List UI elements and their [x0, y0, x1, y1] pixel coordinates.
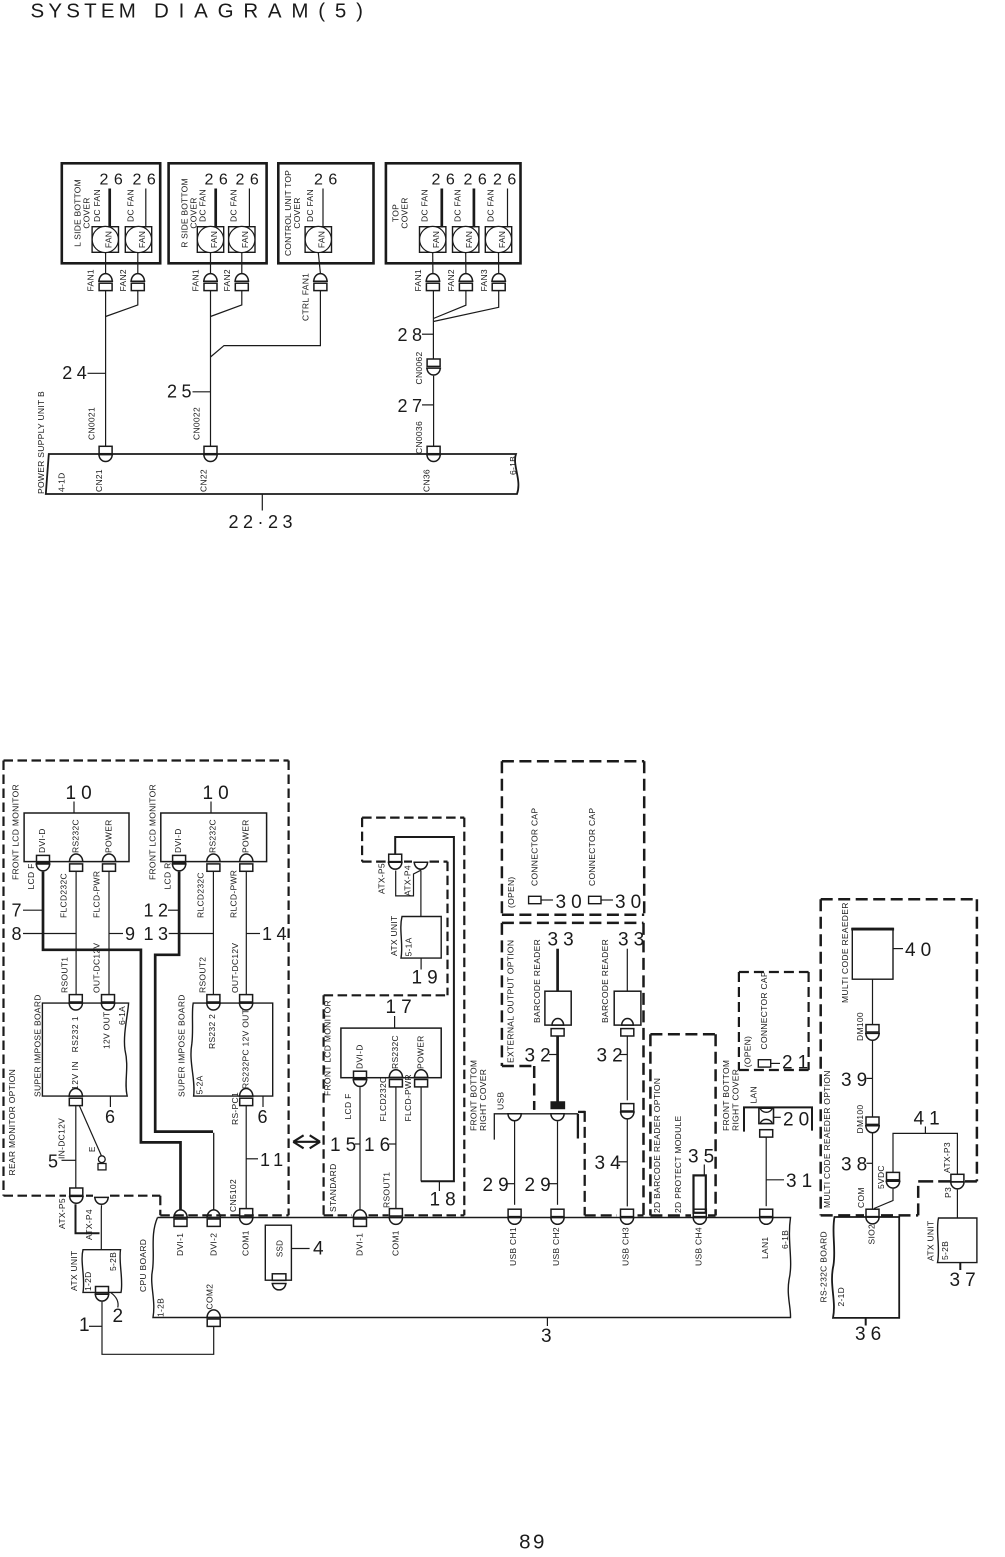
- svg-text:4-1D: 4-1D: [57, 472, 67, 492]
- svg-text:RS232 2: RS232 2: [207, 1014, 217, 1049]
- fan FAN1 (top cover): [420, 227, 446, 253]
- wire CN0062 to CN0036: [433, 376, 435, 447]
- connector FAN2 (R): [234, 274, 249, 282]
- svg-text:11: 11: [260, 1150, 288, 1170]
- svg-text:COM2: COM2: [204, 1284, 214, 1310]
- svg-text:CONNECTOR CAP: CONNECTOR CAP: [759, 971, 769, 1049]
- label 4: [291, 1248, 309, 1250]
- svg-text:CONNECTOR CAP: CONNECTOR CAP: [587, 808, 597, 886]
- svg-text:FRONT LCD MONITOR: FRONT LCD MONITOR: [148, 784, 158, 880]
- connector POWER (LCD R): [239, 854, 254, 862]
- label 37: [959, 1263, 961, 1270]
- svg-text:29: 29: [525, 1175, 556, 1196]
- svg-text:31: 31: [786, 1171, 817, 1192]
- svg-text:FAN2: FAN2: [222, 269, 232, 291]
- svg-text:DVI-1: DVI-1: [175, 1233, 185, 1256]
- connector RS232C (LCD R): [206, 854, 221, 862]
- wire RLCD-PWR to OUT-DC12V-2: [245, 871, 247, 994]
- svg-text:13: 13: [144, 924, 173, 944]
- svg-text:CN5102: CN5102: [228, 1179, 238, 1212]
- svg-text:26: 26: [236, 172, 265, 189]
- dashed box MULTI CODE REAEDER OPTION: [821, 898, 977, 901]
- connector below reader1: [551, 1029, 564, 1036]
- svg-text:CN36: CN36: [422, 469, 432, 492]
- wire DVI std to DVI-1: [359, 1087, 361, 1210]
- box FRONT LCD MONITOR (standard): [341, 1028, 441, 1078]
- svg-text:OUT-DC12V: OUT-DC12V: [92, 943, 102, 993]
- svg-text:26: 26: [133, 172, 162, 189]
- label 11: [246, 1158, 258, 1160]
- connector LAN1 on CPU board: [760, 1209, 773, 1216]
- double arrow option/standard: [293, 1135, 320, 1148]
- svg-text:DVI-D: DVI-D: [354, 1044, 364, 1069]
- connector cap 21: [758, 1060, 770, 1067]
- connector ATX-P5 (rear option): [70, 1188, 83, 1195]
- fan CTRL FAN (control unit top): [305, 227, 331, 253]
- svg-text:19: 19: [412, 968, 443, 989]
- connector USB port 2 on cover: [550, 1114, 565, 1121]
- label 6 (board1): [109, 1096, 111, 1107]
- svg-text:DIAGRAM(5): DIAGRAM(5): [154, 0, 373, 23]
- svg-text:RS232PC 12V OUT: RS232PC 12V OUT: [240, 1009, 250, 1089]
- svg-text:FRONT BOTTOM: FRONT BOTTOM: [468, 1060, 478, 1131]
- wire FAN2-L join: [106, 291, 138, 317]
- svg-text:38: 38: [841, 1155, 872, 1176]
- svg-text:RIGHT COVER: RIGHT COVER: [731, 1069, 741, 1131]
- svg-text:5-2B: 5-2B: [108, 1252, 118, 1271]
- svg-text:17: 17: [386, 997, 417, 1018]
- svg-text:27: 27: [398, 396, 427, 416]
- svg-text:32: 32: [597, 1046, 628, 1067]
- svg-text:RS-PC1: RS-PC1: [230, 1092, 240, 1125]
- svg-text:26: 26: [100, 172, 129, 189]
- svg-text:24: 24: [62, 363, 91, 383]
- wire barcode1 to USB CH2: [557, 1121, 559, 1204]
- wire FLCD232C to RSOUT1: [75, 871, 77, 994]
- connector CN0021/CN21 on power supply: [99, 446, 112, 453]
- wire DVI LCD F to DVI-1 (thick): [43, 872, 181, 1210]
- connector DVI-D (LCD R): [173, 855, 186, 862]
- label 9: [109, 933, 123, 935]
- svg-text:CPU BOARD: CPU BOARD: [138, 1239, 148, 1292]
- svg-text:RSOUT2: RSOUT2: [197, 957, 207, 993]
- label 36: [865, 1318, 867, 1326]
- svg-text:FRONT LCD MONITOR: FRONT LCD MONITOR: [11, 784, 21, 880]
- svg-text:DC FAN: DC FAN: [485, 189, 495, 222]
- svg-text:25: 25: [167, 382, 196, 402]
- wire ATX-P4 to ATX unit 5-1A: [420, 870, 422, 916]
- wire P3 to ATX UNIT 5-2B: [956, 1190, 958, 1218]
- board RS-232C BOARD: [832, 1217, 899, 1318]
- connector RS232C (LCD F): [69, 854, 84, 862]
- svg-text:RS232C: RS232C: [390, 1035, 400, 1069]
- wire FAN1-L to CN0021: [105, 253, 107, 274]
- svg-text:RS-232C BOARD: RS-232C BOARD: [819, 1231, 829, 1302]
- wire FAN1-R to CN0022: [210, 253, 212, 274]
- svg-text:CTRL FAN1: CTRL FAN1: [301, 273, 311, 321]
- svg-text:4: 4: [313, 1239, 329, 1260]
- svg-text:FAN: FAN: [240, 231, 250, 248]
- svg-text:33: 33: [548, 930, 579, 951]
- svg-text:6-1B: 6-1B: [780, 1230, 790, 1249]
- svg-text:DC FAN: DC FAN: [197, 189, 207, 222]
- svg-text:SSD: SSD: [276, 1240, 285, 1257]
- wire ATX unit to COM2: [102, 1302, 214, 1355]
- connector CTRL FAN1: [313, 274, 328, 282]
- svg-text:39: 39: [841, 1070, 872, 1091]
- svg-text:MULTI CODE REAEDER: MULTI CODE REAEDER: [840, 902, 850, 1003]
- connector FAN2 (L): [130, 274, 145, 282]
- svg-text:EXTERNAL OUTPUT OPTION: EXTERNAL OUTPUT OPTION: [506, 940, 516, 1063]
- svg-text:26: 26: [432, 172, 461, 189]
- svg-text:DM100: DM100: [855, 1012, 865, 1041]
- svg-text:P3: P3: [943, 1187, 953, 1198]
- svg-text:FAN1: FAN1: [191, 269, 201, 291]
- inline connector DM100 (lower): [866, 1117, 879, 1124]
- connector USB CH4 on CPU board: [693, 1209, 706, 1216]
- fan FAN2 (L side bottom): [125, 227, 151, 253]
- svg-text:ATX-P5: ATX-P5: [57, 1198, 67, 1229]
- connector DVI-2 on CPU board: [206, 1210, 221, 1218]
- device SSD: [265, 1225, 291, 1280]
- svg-text:FLCD-PWR: FLCD-PWR: [91, 871, 101, 918]
- svg-text:FRONT BOTTOM: FRONT BOTTOM: [721, 1060, 731, 1131]
- svg-text:DC FAN: DC FAN: [420, 189, 430, 222]
- svg-text:21: 21: [782, 1053, 813, 1074]
- svg-text:USB CH2: USB CH2: [551, 1227, 561, 1266]
- wire LAN to LAN1: [765, 1137, 767, 1206]
- wire FAN2-top join: [433, 291, 466, 319]
- svg-text:CN0036: CN0036: [414, 421, 424, 454]
- wire reader1 to cover (thick): [556, 1036, 559, 1102]
- svg-text:FAN: FAN: [464, 231, 474, 248]
- connector CN0036/CN36 on power supply: [427, 446, 440, 453]
- svg-text:FAN1: FAN1: [413, 269, 423, 291]
- svg-text:2: 2: [113, 1306, 129, 1327]
- svg-text:5VDC: 5VDC: [876, 1165, 886, 1189]
- label 2 leader: [111, 1293, 118, 1308]
- connector ATX-P4 (standard): [413, 862, 428, 869]
- svg-text:STANDARD: STANDARD: [328, 1163, 338, 1212]
- connector ATX-P4 (rear option): [94, 1197, 109, 1204]
- cover box: TOP COVER: [386, 163, 521, 263]
- svg-text:6-1A: 6-1A: [117, 1006, 127, 1025]
- svg-text:CN0022: CN0022: [192, 407, 202, 440]
- connector DVI-1 (standard) on CPU board: [353, 1210, 368, 1218]
- svg-text:FAN2: FAN2: [446, 269, 456, 291]
- svg-text:6: 6: [258, 1107, 273, 1127]
- dashed box CONNECTOR CAP (21): [739, 971, 809, 973]
- board ATX UNIT 1-2D: [82, 1250, 122, 1293]
- cover box: R SIDE BOTTOM COVER: [169, 163, 267, 263]
- svg-text:USB: USB: [496, 1092, 506, 1110]
- svg-text:29: 29: [483, 1175, 514, 1196]
- svg-text:DVI-2: DVI-2: [208, 1233, 218, 1256]
- board SUPER IMPOSE BOARD 2: [191, 1003, 273, 1096]
- wire DVI LCD R to DVI-2 (thick): [155, 872, 213, 1132]
- connector COM2 on CPU board bottom: [206, 1310, 221, 1318]
- fan FAN1 (L side bottom): [92, 227, 118, 253]
- connector RS-PC1 (board2 bottom): [239, 1089, 254, 1097]
- svg-text:20: 20: [783, 1110, 814, 1131]
- wire DM100 to COM: [872, 1133, 874, 1209]
- svg-text:CN0062: CN0062: [414, 352, 424, 385]
- svg-text:DC FAN: DC FAN: [453, 189, 463, 222]
- connector POWER (standard): [414, 1070, 429, 1078]
- svg-text:10: 10: [66, 783, 97, 804]
- wire ATX-P5 loop (standard): [396, 870, 421, 896]
- svg-text:COM: COM: [856, 1187, 866, 1208]
- svg-text:26: 26: [493, 172, 522, 189]
- label 22-23: [261, 494, 263, 511]
- svg-text:12V IN RS232 1: 12V IN RS232 1: [70, 1016, 80, 1090]
- svg-text:1: 1: [79, 1315, 95, 1336]
- connector FAN1 (L): [98, 274, 113, 282]
- svg-text:ATX UNIT: ATX UNIT: [69, 1251, 79, 1292]
- svg-text:26: 26: [314, 172, 343, 189]
- fan FAN2 (R side bottom): [229, 227, 255, 253]
- svg-text:DVI-D: DVI-D: [173, 828, 183, 853]
- wire DM100 to DM100: [872, 1041, 874, 1117]
- svg-text:CN22: CN22: [199, 469, 209, 492]
- svg-text:SIO2: SIO2: [867, 1224, 877, 1245]
- svg-text:2-1D: 2-1D: [836, 1287, 846, 1307]
- connector DVI-1 on CPU board: [173, 1210, 188, 1218]
- svg-text:FAN: FAN: [497, 231, 507, 248]
- svg-text:22·23: 22·23: [229, 512, 298, 532]
- svg-text:1-2B: 1-2B: [156, 1298, 166, 1317]
- fan FAN1 (R side bottom): [197, 227, 223, 253]
- svg-text:COM1: COM1: [390, 1230, 400, 1256]
- inline connector DM100 (upper): [866, 1025, 879, 1032]
- wire 5VDC branch to COM wire: [874, 1189, 893, 1209]
- wire IN-DC12V to ATX-P5: [75, 1106, 77, 1188]
- connector RSOUT1/COM1 (standard) on CPU board: [389, 1209, 402, 1216]
- svg-text:SUPER IMPOSE BOARD: SUPER IMPOSE BOARD: [177, 994, 187, 1097]
- svg-text:14: 14: [262, 924, 291, 944]
- svg-text:3: 3: [541, 1326, 557, 1347]
- wire ATX-P5 std to 18 loop (thick): [395, 837, 454, 1181]
- device MULTI CODE READER (40): [852, 928, 893, 979]
- label 19: [420, 958, 422, 969]
- svg-text:30: 30: [615, 892, 646, 913]
- connector DVI-D (standard): [354, 1071, 367, 1078]
- svg-text:(OPEN): (OPEN): [506, 876, 516, 908]
- svg-text:LAN: LAN: [749, 1086, 759, 1103]
- dashed box STANDARD / ATX area: [362, 816, 464, 818]
- svg-text:POWER: POWER: [241, 819, 251, 853]
- connector below LAN port: [760, 1130, 773, 1137]
- svg-text:ATX-P4: ATX-P4: [402, 865, 412, 896]
- connector RSOUT2 (board2 top): [207, 995, 220, 1002]
- svg-text:1-2D: 1-2D: [83, 1271, 93, 1291]
- board SUPER IMPOSE BOARD 1: [42, 1003, 128, 1096]
- wire FLCD232C std to RSOUT1: [395, 1087, 397, 1209]
- svg-text:RLCD-PWR: RLCD-PWR: [229, 870, 239, 918]
- connector OUT-DC12V (board1 top): [102, 995, 115, 1002]
- cover bracket FRONT BOTTOM RIGHT COVER (LAN): [744, 1107, 812, 1131]
- svg-text:COM1: COM1: [241, 1230, 251, 1256]
- svg-text:40: 40: [905, 940, 936, 961]
- connector COM/SIO2 on RS-232C board: [866, 1209, 879, 1216]
- svg-text:FAN: FAN: [104, 231, 114, 248]
- connector FAN1 (top): [425, 274, 440, 282]
- device BARCODE READER 2: [614, 991, 641, 1025]
- svg-text:18: 18: [430, 1190, 461, 1211]
- svg-text:10: 10: [203, 783, 234, 804]
- svg-text:FAN: FAN: [317, 231, 327, 248]
- svg-text:32: 32: [525, 1046, 556, 1067]
- svg-text:POWER: POWER: [415, 1035, 425, 1069]
- board CPU BOARD: [152, 1218, 791, 1318]
- dashed boundary (external option) to board: [578, 1111, 585, 1113]
- wire CTRL FAN1 to FAN1-R wire: [318, 253, 320, 274]
- box FRONT LCD MONITOR (LCD F): [24, 813, 129, 862]
- label 14: [246, 933, 260, 935]
- svg-text:FAN: FAN: [209, 231, 219, 248]
- svg-text:BARCODE READER: BARCODE READER: [600, 939, 610, 1023]
- svg-text:16: 16: [364, 1135, 395, 1156]
- label 3: [546, 1318, 548, 1327]
- svg-text:5: 5: [48, 1152, 63, 1172]
- svg-text:ATX UNIT: ATX UNIT: [389, 916, 399, 957]
- svg-text:FLCD232C: FLCD232C: [378, 1077, 388, 1122]
- connector FAN3 (top): [491, 274, 506, 282]
- svg-text:12V OUT: 12V OUT: [102, 1011, 112, 1049]
- wire reader to DM100: [872, 979, 874, 1024]
- svg-text:DM100: DM100: [855, 1105, 865, 1134]
- svg-text:33: 33: [618, 930, 649, 951]
- connector USB port 1 on cover: [507, 1114, 522, 1121]
- svg-text:6: 6: [105, 1107, 120, 1127]
- inline connector 5VDC: [887, 1172, 900, 1179]
- wire FAN2-R join: [211, 291, 242, 317]
- svg-text:DC FAN: DC FAN: [92, 189, 102, 222]
- svg-text:6-1B: 6-1B: [508, 456, 518, 475]
- connector POWER (LCD F): [102, 854, 117, 862]
- dashed box 2D BARCODE READER OPTION: [650, 1033, 715, 1036]
- svg-text:35: 35: [688, 1147, 719, 1168]
- svg-text:RS232C: RS232C: [208, 819, 218, 853]
- ground E symbol: [80, 1106, 102, 1156]
- label 40: [893, 948, 903, 950]
- wire FAN1-top down to CN0062: [432, 253, 434, 274]
- svg-text:FLCD-PWR: FLCD-PWR: [403, 1074, 413, 1121]
- inline connector (reader2): [621, 1104, 634, 1111]
- connector USB CH3 on CPU board: [621, 1209, 634, 1216]
- svg-text:ATX-P5: ATX-P5: [377, 863, 387, 894]
- svg-text:USB CH3: USB CH3: [621, 1227, 631, 1266]
- connector USB CH1 on CPU board: [508, 1209, 521, 1216]
- dashed box REAR MONITOR OPTION: [4, 759, 289, 761]
- connector USB CH2 on CPU board: [551, 1209, 564, 1216]
- dashed box CONNECTOR CAP (top right): [502, 760, 644, 763]
- svg-text:FLCD232C: FLCD232C: [58, 873, 68, 918]
- svg-text:FAN: FAN: [137, 231, 147, 248]
- connector OUT-DC12V (board2 top): [240, 995, 253, 1002]
- svg-text:LCD F: LCD F: [26, 863, 36, 889]
- connector IN-DC12V (board1 bottom): [68, 1088, 83, 1096]
- connector FAN2 (top): [458, 274, 473, 282]
- connector ATX-P5 (standard): [389, 854, 402, 861]
- svg-text:MULTI CODE REAEDER OPTION: MULTI CODE REAEDER OPTION: [822, 1070, 832, 1208]
- svg-text:LCD R: LCD R: [163, 862, 173, 889]
- connector RSOUT1 (board1 top): [69, 995, 82, 1002]
- svg-text:26: 26: [205, 172, 234, 189]
- svg-text:34: 34: [595, 1153, 626, 1174]
- connector ATX unit bottom (to COM2): [96, 1287, 109, 1294]
- svg-text:2D PROTECT MODULE: 2D PROTECT MODULE: [673, 1115, 683, 1213]
- connector CN0022/CN22 on power supply: [204, 446, 217, 453]
- svg-text:CN0021: CN0021: [87, 407, 97, 440]
- svg-text:LCD F: LCD F: [343, 1093, 353, 1119]
- svg-text:BARCODE READER: BARCODE READER: [532, 939, 542, 1023]
- svg-text:DC FAN: DC FAN: [305, 189, 315, 222]
- wire FLCD-PWR to OUT-DC12V: [108, 871, 110, 994]
- wire RS-PC1 to CN5102: [245, 1106, 247, 1209]
- cover bracket FRONT BOTTOM RIGHT COVER (USB): [494, 1114, 578, 1140]
- wire reader2 down: [626, 1036, 628, 1100]
- svg-text:5-2A: 5-2A: [195, 1075, 205, 1094]
- inline connector CN0062: [427, 359, 440, 366]
- svg-text:POWER: POWER: [103, 819, 113, 853]
- svg-text:FAN: FAN: [431, 231, 441, 248]
- svg-text:37: 37: [950, 1270, 981, 1291]
- label 6 (board2): [262, 1096, 264, 1107]
- svg-text:OUT-DC12V: OUT-DC12V: [230, 943, 240, 993]
- svg-text:30: 30: [556, 892, 587, 913]
- svg-text:DC FAN: DC FAN: [125, 189, 135, 222]
- svg-text:36: 36: [855, 1324, 886, 1345]
- connector LAN port 20 on cover: [759, 1108, 774, 1123]
- svg-text:SUPER IMPOSE BOARD: SUPER IMPOSE BOARD: [32, 994, 42, 1097]
- cover box: L SIDE BOTTOM COVER: [62, 163, 160, 263]
- wire FAN3-top join: [433, 291, 498, 322]
- svg-text:ATX-P3: ATX-P3: [942, 1142, 952, 1173]
- svg-text:CN21: CN21: [94, 469, 104, 492]
- svg-text:DC FAN: DC FAN: [229, 189, 239, 222]
- svg-text:RLCD232C: RLCD232C: [196, 872, 206, 918]
- svg-text:ATX UNIT: ATX UNIT: [926, 1221, 936, 1262]
- svg-text:FAN3: FAN3: [479, 269, 489, 291]
- svg-text:ATX-P4: ATX-P4: [84, 1209, 94, 1240]
- svg-text:E: E: [88, 1146, 97, 1152]
- svg-text:41: 41: [914, 1109, 945, 1130]
- svg-text:CONNECTOR CAP: CONNECTOR CAP: [529, 808, 539, 886]
- wire RLCD232C to RSOUT2: [212, 871, 214, 994]
- svg-text:RSOUT1: RSOUT1: [60, 957, 70, 993]
- svg-text:RSOUT1: RSOUT1: [382, 1172, 392, 1208]
- svg-text:FAN2: FAN2: [118, 269, 128, 291]
- svg-text:5-2B: 5-2B: [940, 1241, 950, 1260]
- device BARCODE READER 1: [545, 991, 571, 1025]
- board POWER SUPPLY UNIT B: [46, 454, 519, 494]
- cover box: CONTROL UNIT TOP COVER: [278, 163, 373, 263]
- dashed box EXTERNAL OUTPUT OPTION: [502, 922, 644, 925]
- fan FAN3 (top cover): [485, 227, 511, 253]
- svg-text:COVER: COVER: [292, 197, 302, 228]
- fan FAN2 (top cover): [453, 227, 479, 253]
- svg-text:RIGHT COVER: RIGHT COVER: [478, 1069, 488, 1131]
- wire reader2 to USB CH3: [626, 1120, 628, 1207]
- svg-text:(OPEN): (OPEN): [742, 1036, 752, 1068]
- label 18: [438, 1181, 440, 1191]
- connector ATX-P3 / P3: [951, 1174, 964, 1181]
- board ATX UNIT 5-1A: [401, 917, 441, 959]
- svg-text:DVI-D: DVI-D: [37, 828, 47, 853]
- connector DVI-D (LCD F): [37, 855, 50, 862]
- label 31: [766, 1179, 784, 1181]
